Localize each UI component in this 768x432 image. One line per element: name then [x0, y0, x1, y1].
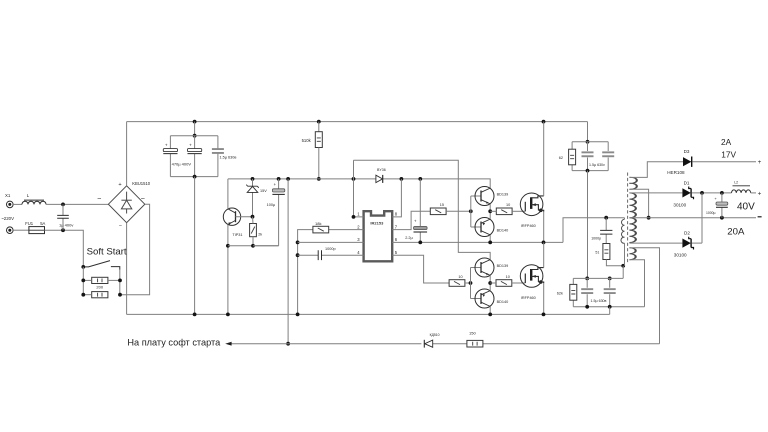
diode D3 HER108: [683, 157, 692, 167]
relay contact K1 (soft start bypass): [83, 261, 120, 270]
wire R2 left: [83, 294, 91, 296]
wire bus up to bottom block: [609, 307, 611, 315]
transistor Q1 IRFP460 (high): [520, 193, 543, 216]
wire R1 left: [83, 279, 91, 281]
label 1000u: [706, 211, 716, 215]
label HER108: [667, 170, 685, 175]
label 1000p (C6): [325, 247, 336, 251]
wire top rail down to 62 block: [587, 122, 589, 142]
arrow to soft-start board: [225, 342, 231, 346]
svg-text:2.2µ: 2.2µ: [405, 236, 413, 240]
svg-text:30100: 30100: [673, 203, 686, 208]
svg-text:40V: 40V: [737, 202, 755, 213]
label L: [27, 193, 30, 198]
capacitor C10 1.5u 630v: [581, 288, 593, 294]
node AC2 / C1 tap: [61, 228, 65, 232]
pin number 2: [357, 224, 360, 229]
wire soft-start left vertical: [82, 267, 84, 295]
wire choke to bridge AC1 node: [46, 203, 108, 205]
node VCC / pin1 branch: [352, 177, 356, 181]
pin number 7: [395, 224, 398, 229]
svg-text:L2: L2: [734, 180, 738, 184]
wire L2 to +40V: [751, 192, 756, 194]
label KD510: [430, 333, 440, 337]
svg-text:1000p: 1000p: [591, 236, 601, 240]
resistor R7 10 (gate high): [496, 208, 512, 215]
resistor R5 18k (RT): [313, 226, 329, 233]
wire emitters to R7: [490, 210, 496, 212]
wire feedback winding bottom to bus: [629, 260, 644, 307]
node emitter rail / R4: [251, 244, 255, 248]
wire 17V winding top to D3: [629, 162, 683, 178]
node R1 right: [118, 279, 122, 283]
svg-text:BD139: BD139: [497, 192, 509, 196]
svg-text:+: +: [189, 142, 192, 147]
node base high pair: [469, 209, 473, 213]
svg-text:100µ: 100µ: [267, 203, 276, 207]
svg-text:200: 200: [96, 285, 103, 290]
resistor R11 62k (bleeder bottom): [570, 284, 577, 300]
svg-text:D2: D2: [684, 231, 690, 236]
wire VT1 collector: [227, 179, 229, 209]
wire Q2 drain to VS rail: [543, 242, 545, 267]
label 10 low-in: [458, 275, 462, 279]
label + at bridge: [118, 182, 121, 188]
capacitor C9 1.5u 630v: [602, 151, 614, 157]
wire bridge + up to +310V rail: [126, 122, 128, 186]
pin number 5: [395, 250, 398, 255]
transformer T1 feedback winding: [629, 248, 635, 260]
connector X1 terminal 1 (~220V line): [7, 201, 14, 208]
capacitor C5 100u (VCC filter): [272, 179, 284, 246]
node top rail / R 510k: [317, 120, 321, 124]
node emitter rail left: [226, 244, 230, 248]
pin number 4: [357, 250, 360, 255]
pin number 1: [357, 212, 360, 217]
label 2A: [721, 137, 732, 147]
diode D2 30100: [682, 237, 693, 250]
wire R8 to base node low: [465, 282, 471, 284]
node mid block top left: [585, 277, 589, 281]
svg-text:1.5µ 630v: 1.5µ 630v: [589, 163, 605, 167]
svg-text:1.5µ 630в: 1.5µ 630в: [591, 299, 607, 303]
node soft-start line / charge: [286, 342, 290, 346]
capacitor C6 1000p (CT): [318, 250, 321, 260]
node top block rail: [586, 140, 590, 144]
node emitters low: [488, 281, 492, 285]
node bus / Q2 source: [542, 313, 546, 317]
label 1.5u 630v top block: [589, 163, 605, 167]
svg-text:5A: 5A: [40, 221, 45, 226]
svg-text:D1: D1: [684, 180, 690, 185]
resistor R13 150: [467, 340, 483, 347]
node center tap join: [647, 216, 651, 220]
svg-text:На плату софт старта: На плату софт старта: [127, 338, 221, 348]
wire VT2 emitter / VT3 emitter join: [489, 204, 491, 219]
node VCC / C 100u: [277, 177, 281, 181]
wire cap midpoint vertical: [587, 171, 589, 279]
node pin1: [352, 215, 356, 219]
label 10 low: [506, 275, 510, 279]
wire Q2 source to bus: [543, 283, 545, 314]
transistor VT4 BD139 (low): [475, 258, 494, 277]
svg-text:IRFP460: IRFP460: [521, 296, 536, 300]
node minus rail / C13: [720, 216, 724, 220]
node VB rail / pin8: [400, 177, 404, 181]
wire base node verticals high: [471, 196, 481, 227]
svg-text:10: 10: [506, 203, 510, 207]
node soft-start left at contact: [81, 265, 85, 269]
svg-text:+: +: [758, 159, 762, 166]
wire pin7 HO: [392, 211, 430, 229]
label 20A: [727, 227, 745, 238]
node R2 right: [118, 293, 122, 297]
wire R1 right: [108, 279, 120, 281]
wire VT4/VT5 emitter join: [489, 275, 491, 290]
svg-text:10: 10: [506, 275, 510, 279]
wire cap bank to negative bus: [194, 177, 196, 315]
transformer T1 secondary main winding: [629, 193, 636, 243]
node top rail / cap bank: [193, 120, 197, 124]
transistor Q2 IRFP460 (low): [520, 265, 543, 288]
capacitor C13 1000u (output): [714, 193, 727, 218]
wire pin2 RT: [298, 230, 364, 315]
label X1: [5, 193, 11, 198]
fuse FU1: [29, 227, 45, 234]
svg-text:+: +: [165, 142, 168, 147]
label 1.5u 630v (C4): [220, 156, 237, 160]
capacitor C11 1.5u 630v: [604, 288, 616, 294]
node primary bottom / snubber: [621, 264, 625, 268]
label to soft-start board: [127, 338, 221, 348]
label 30100 D2: [674, 253, 687, 258]
label 15: [440, 203, 444, 207]
node VCC / charge line: [286, 177, 290, 181]
wire pin1 VCC: [354, 160, 364, 217]
wire R9 to gate low: [512, 282, 526, 284]
resistor R2 200 (inrush): [92, 292, 108, 298]
wire D3 to +17V: [692, 161, 756, 163]
node cap bank top: [193, 134, 197, 138]
node bus / VT5 collector: [488, 313, 492, 317]
svg-text:КД510: КД510: [430, 333, 440, 337]
svg-text:D3: D3: [684, 149, 690, 154]
capacitor C12 1000p (snubber): [600, 218, 612, 244]
svg-text:BD140: BD140: [497, 228, 509, 232]
svg-text:1µ 400v: 1µ 400v: [59, 222, 73, 227]
label 1u 400v: [59, 222, 73, 227]
wire C5 bottom to emitter rail: [253, 245, 279, 247]
label 150: [469, 331, 476, 336]
svg-text:+: +: [758, 190, 762, 197]
label 2.2u: [405, 236, 413, 240]
label 470u 400V: [172, 162, 192, 167]
resistor R12 51 (snubber): [603, 244, 610, 260]
svg-text:HER108: HER108: [667, 170, 685, 175]
wire negative bus: [127, 313, 610, 315]
label KBU1510: [132, 181, 151, 186]
label 30100 D1: [673, 203, 686, 208]
wire snubber to primary bottom: [606, 260, 623, 266]
wire emitter rail: [228, 245, 279, 247]
svg-text:BD140: BD140: [497, 300, 509, 304]
svg-text:FU1: FU1: [25, 221, 34, 226]
wire pin8 VB: [392, 179, 401, 217]
svg-text:17V: 17V: [721, 150, 736, 160]
svg-text:2A: 2A: [721, 137, 732, 147]
node zener / base / R 2k: [251, 215, 255, 219]
node AC1 / C1 tap: [61, 203, 65, 207]
pin number 6: [395, 237, 398, 242]
node X / CT cap: [296, 253, 300, 257]
svg-text:TIP31: TIP31: [232, 233, 242, 237]
label 51: [595, 250, 599, 254]
pin number 3: [357, 237, 360, 242]
resistor R6 15 (HO base): [430, 208, 446, 215]
wire base node verticals low: [471, 268, 482, 299]
transistor VT1 TIP31: [223, 208, 240, 225]
capacitor C2 470u 400V: [163, 142, 177, 153]
node top rail / Q-high drain: [542, 120, 546, 124]
wire R7 to gate: [512, 210, 525, 212]
wire pin4 via C 1000p: [298, 254, 364, 256]
wire VCC rail: [228, 179, 490, 188]
resistor R4 2k: [250, 224, 257, 237]
label L2: [734, 180, 738, 184]
svg-text:150: 150: [469, 331, 476, 336]
capacitor C3 470u 400V: [188, 142, 202, 153]
wire VCC to soft-start feed line: [287, 179, 289, 344]
wire soft-start right vertical: [119, 270, 121, 295]
svg-text:IRFP460: IRFP460: [521, 224, 536, 228]
resistor R9 10 (gate low): [496, 280, 512, 287]
capacitor C4 1.5u 630v: [212, 148, 224, 154]
svg-text:2k: 2k: [258, 232, 262, 236]
label FU1: [25, 221, 34, 226]
wire main winding top to D1: [629, 192, 682, 194]
diode VD4 KD510 (aux rectifier): [424, 340, 432, 348]
transformer T1 core: [627, 173, 629, 264]
node top block bottom: [586, 169, 590, 173]
node X / pin3: [296, 241, 300, 245]
wire top block frame: [572, 142, 608, 171]
svg-text:51: 51: [595, 250, 599, 254]
wire X1.1 to choke L1: [13, 203, 22, 205]
wire Q1 source to VS rail: [543, 212, 545, 243]
label TIP31: [232, 233, 242, 237]
wire R4 to emitter rail: [252, 237, 254, 246]
wire VS rail to primary top: [563, 218, 625, 243]
transistor VT3 BD140 (high): [475, 218, 494, 237]
resistor R1 200 (inrush): [92, 277, 108, 283]
wire pin3 CT: [298, 241, 364, 243]
svg-text:1.5µ 630в: 1.5µ 630в: [220, 156, 237, 160]
diode D1 30100: [682, 187, 693, 200]
node VCC / R3: [317, 177, 321, 181]
wire bridge AC2 down to soft-start: [120, 204, 150, 295]
wire D2 to output node: [692, 242, 702, 244]
terminal + 40V: [758, 190, 762, 197]
op-amp U1 IR2153 driver IC body: [364, 211, 393, 261]
label 1.5u 630v bottom block: [591, 299, 607, 303]
label 17V: [721, 150, 736, 160]
node VB rail / C 2.2u: [418, 177, 422, 181]
node snubber top: [604, 216, 608, 220]
capacitor C7 2.2u (bootstrap): [414, 179, 428, 243]
wire VT3 collector to VS: [489, 235, 491, 243]
label ~220V: [1, 216, 14, 221]
node R2 left: [81, 293, 85, 297]
wire bottom block frame: [573, 278, 644, 306]
transformer T1 secondary 17V winding: [629, 177, 636, 189]
transformer T1 primary winding: [621, 218, 625, 266]
wire VCC over-route to low driver: [354, 160, 491, 259]
node VS / VT3 collector: [488, 241, 492, 245]
wire pin5 LO: [392, 255, 449, 283]
terminal - common: [758, 216, 762, 218]
label 62: [559, 156, 563, 160]
node R1 left: [81, 279, 85, 283]
wire main winding bottom to D2: [629, 242, 682, 244]
wire soft-start feed line: [231, 343, 659, 345]
label BD140 high: [497, 228, 509, 232]
label - at bridge: [119, 223, 122, 229]
node output / C13: [720, 191, 724, 195]
svg-text:15V: 15V: [260, 189, 267, 193]
node base low pair: [469, 281, 473, 285]
node bottom block c10: [585, 305, 589, 309]
transistor VT5 BD140 (low): [475, 289, 494, 308]
wire VT5 collector to bus: [489, 306, 491, 314]
label 2k: [258, 232, 262, 236]
wire fuse to soft-start left node: [45, 230, 84, 267]
svg-text:~: ~: [141, 196, 145, 203]
wire pin6 VS: [392, 241, 563, 243]
resistor R8 10 (LO base): [449, 280, 465, 287]
node D1/D2 join: [700, 191, 704, 195]
svg-text:BD139: BD139: [497, 264, 509, 268]
wire rail to R 510k: [318, 122, 320, 132]
svg-text:X1: X1: [5, 193, 11, 198]
label 510k: [302, 138, 312, 143]
svg-text:Soft Start: Soft Start: [87, 246, 127, 257]
wire Q1 drain to +310V: [543, 122, 545, 196]
node emitters high: [488, 209, 492, 213]
svg-text:~: ~: [97, 196, 101, 203]
bridge rectifier KBU1510: [108, 186, 144, 223]
svg-text:62k: 62k: [557, 292, 563, 296]
node cap bank bottom: [193, 175, 197, 179]
capacitor C1 1u 400v across AC lines: [57, 204, 69, 230]
label 15V: [260, 189, 267, 193]
label ~ left: [97, 196, 101, 203]
svg-text:~220V: ~220V: [1, 216, 14, 221]
label 200: [96, 285, 103, 290]
wire rail to cap bank: [194, 122, 196, 136]
svg-text:15: 15: [440, 203, 444, 207]
terminal + 17V: [758, 159, 762, 166]
svg-text:510k: 510k: [302, 138, 312, 143]
label BD139 high: [497, 192, 509, 196]
label D3: [684, 149, 690, 154]
label 18k: [315, 221, 321, 226]
wire +310V top rail: [127, 121, 588, 123]
label BY36: [377, 168, 386, 172]
svg-text:−: −: [119, 223, 122, 229]
zener diode VD2 15V: [246, 179, 258, 217]
node VS / Q1 source: [542, 241, 546, 245]
label 40V: [737, 202, 755, 213]
wire feedback winding top to soft-start line: [629, 248, 659, 344]
diode VD3 BY36 (bootstrap): [376, 175, 383, 183]
node VCC / zener: [251, 177, 255, 181]
svg-text:10: 10: [458, 275, 462, 279]
wire zener node to R4: [252, 217, 255, 224]
transistor VT2 BD139 (high): [475, 187, 494, 206]
wire VT1 emitter: [227, 225, 229, 315]
resistor R3 510k (startup): [315, 132, 322, 148]
wire D1 node down to D2: [701, 193, 703, 243]
node bus / cap bank: [193, 313, 197, 317]
svg-text:+: +: [118, 182, 121, 188]
label 10 high: [506, 203, 510, 207]
label 5A: [40, 221, 45, 226]
label D2: [684, 231, 690, 236]
capacitor C8 1.5u 630v: [582, 151, 594, 157]
inductor L1 common-mode choke: [22, 200, 46, 204]
wire primary bottom to cap midpoint rail: [622, 266, 624, 279]
label IRFP460 low: [521, 296, 536, 300]
svg-text:IR2153: IR2153: [370, 221, 384, 226]
inductor L2 (output filter): [732, 186, 751, 193]
wire bridge - down to negative bus: [126, 223, 128, 315]
wire cap bank frame: [170, 136, 218, 177]
wire R 510k to VCC rail: [318, 148, 320, 179]
wire center tap rail (-): [629, 217, 756, 219]
label Soft Start: [87, 246, 127, 257]
label 100u: [267, 203, 276, 207]
label IR2153: [370, 221, 384, 226]
pin number 8: [395, 212, 398, 217]
svg-text:62: 62: [559, 156, 563, 160]
node VS / C 2.2u: [418, 241, 422, 245]
node bus / VT1 emitter: [226, 313, 230, 317]
node mid block top right: [608, 277, 612, 281]
node bus / node X: [296, 313, 300, 317]
wire emitters low to R9: [490, 282, 496, 284]
svg-text:18k: 18k: [315, 221, 321, 226]
resistor R10 62 (bleeder top): [569, 149, 576, 165]
wire D1 to output node: [692, 192, 732, 194]
label 62k: [557, 292, 563, 296]
wire X1.2 to fuse FU1: [13, 229, 29, 231]
label ~ right: [141, 196, 145, 203]
wire VT1 base to zener node: [236, 216, 253, 218]
label D1: [684, 180, 690, 185]
wire 17V winding bottom to common: [629, 189, 648, 218]
svg-text:1000p: 1000p: [325, 247, 336, 251]
label IRFP460 high: [521, 224, 536, 228]
connector X1 terminal 2 (~220V neutral): [7, 227, 14, 234]
label BD139 low: [497, 264, 509, 268]
svg-text:470µ 400V: 470µ 400V: [172, 162, 192, 167]
svg-text:30100: 30100: [674, 253, 687, 258]
svg-text:1000µ: 1000µ: [706, 211, 716, 215]
wire R6 to base node: [446, 210, 471, 212]
svg-text:20A: 20A: [727, 227, 745, 238]
label BD140 low: [497, 300, 509, 304]
svg-text:BY36: BY36: [377, 168, 386, 172]
